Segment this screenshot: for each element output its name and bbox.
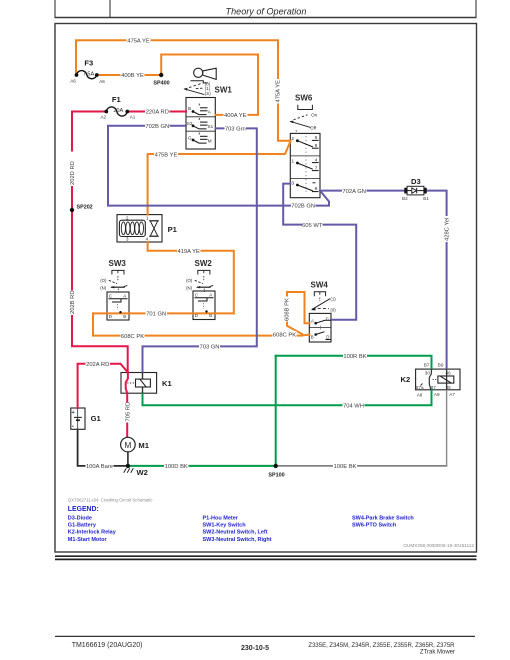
park brake switch SW4: [309, 281, 336, 340]
svg-text:SW4-Park Brake Switch: SW4-Park Brake Switch: [352, 515, 414, 521]
double rule under figure: [55, 555, 477, 557]
svg-text:(O): (O): [100, 278, 107, 283]
svg-text:D: D: [109, 314, 112, 319]
label 202B RD (vertical): [69, 290, 77, 315]
svg-text:D: D: [326, 335, 329, 340]
svg-text:419A YE: 419A YE: [177, 249, 200, 255]
label 202A RD: [86, 361, 111, 368]
svg-text:428C Yel: 428C Yel: [444, 218, 450, 241]
svg-text:W2: W2: [137, 468, 148, 477]
svg-text:SW6-PTO Switch: SW6-PTO Switch: [352, 523, 397, 529]
label 704 WH: [343, 402, 365, 409]
wire 202A RD: [78, 364, 128, 408]
svg-text:K2: K2: [401, 375, 411, 384]
svg-text:K1: K1: [162, 379, 172, 388]
svg-text:A9: A9: [434, 392, 440, 397]
svg-text:A7: A7: [449, 392, 455, 397]
svg-text:202A RD: 202A RD: [86, 362, 109, 368]
neutral switch SW3 body: [107, 292, 129, 320]
key switch SW1 body: [186, 98, 215, 150]
fuse F3: [70, 58, 105, 84]
label 703 GN: [199, 343, 220, 350]
svg-text:(N): (N): [186, 285, 193, 290]
label 475A YE (vertical): [274, 79, 281, 104]
svg-text:(S): (S): [205, 91, 211, 96]
svg-text:Theory of Operation: Theory of Operation: [226, 7, 307, 17]
neutral switch SW2 body: [193, 291, 215, 320]
wire 100R BK drop to SP100: [275, 356, 277, 466]
svg-text:D3-Diode: D3-Diode: [68, 515, 92, 521]
neutral switch SW2: [186, 259, 213, 318]
svg-text:G1-Battery: G1-Battery: [68, 523, 97, 529]
svg-text:1: 1: [292, 158, 295, 163]
wire 702A GN: [320, 190, 405, 192]
label 703 Grn: [225, 125, 247, 132]
svg-text:OUMX258,0000D05-19-20151112: OUMX258,0000D05-19-20151112: [403, 543, 474, 548]
svg-text:SW3: SW3: [109, 259, 127, 268]
svg-text:B: B: [123, 314, 126, 319]
label 419A YE: [177, 248, 201, 255]
PTO switch SW6 body: [290, 133, 320, 197]
figure border: [55, 24, 477, 553]
page footer: [55, 636, 475, 655]
svg-text:400B YE: 400B YE: [121, 73, 144, 79]
svg-text:D: D: [195, 313, 198, 318]
svg-text:B2: B2: [402, 196, 408, 201]
svg-text:2: 2: [292, 136, 295, 141]
svg-text:Z335E, Z345M, Z345R, Z355E, Z3: Z335E, Z345M, Z345R, Z355E, Z355R, Z365R…: [308, 643, 455, 649]
diode D3: [402, 177, 429, 201]
label 475A YE (top): [127, 37, 151, 44]
svg-text:(1): (1): [330, 296, 336, 301]
svg-text:G1: G1: [91, 414, 102, 423]
label 400B YE: [121, 72, 145, 79]
svg-text:87a: 87a: [416, 385, 424, 390]
svg-text:C: C: [195, 293, 198, 298]
start relay K1: [127, 373, 172, 394]
svg-text:608C PK: 608C PK: [273, 332, 296, 338]
svg-text:SW4: SW4: [311, 281, 329, 290]
label 428C Yel: [443, 216, 450, 242]
label 202D RD (vertical): [69, 152, 77, 187]
svg-text:87: 87: [431, 385, 437, 390]
svg-text:605 WT: 605 WT: [302, 223, 323, 229]
label 701 GN: [146, 310, 168, 317]
svg-text:100D BK: 100D BK: [165, 464, 188, 470]
wire 702B GN: [108, 126, 329, 206]
svg-text:M1-Start Motor: M1-Start Motor: [68, 537, 108, 543]
svg-text:A: A: [311, 318, 314, 323]
label 702A GN: [342, 188, 367, 195]
svg-text:7.5A: 7.5A: [83, 72, 95, 78]
wire 608C PK: [93, 313, 310, 335]
svg-text:702B GN: 702B GN: [145, 124, 169, 130]
svg-text:(O): (O): [186, 278, 193, 283]
label 100D BK: [164, 463, 189, 470]
label 475B YE: [154, 151, 178, 158]
svg-text:P1: P1: [168, 225, 178, 234]
wire K2 85 to 100E BK: [446, 390, 448, 466]
wire 475A YE: [76, 40, 291, 141]
svg-text:9: 9: [315, 186, 318, 191]
svg-text:S1: S1: [208, 124, 214, 129]
svg-text:-: -: [72, 423, 74, 430]
svg-text:702A GN: 702A GN: [342, 189, 366, 195]
svg-text:701 GN: 701 GN: [146, 312, 166, 318]
label 400A YE: [224, 112, 248, 119]
svg-text:220A RD: 220A RD: [146, 110, 169, 116]
svg-text:SW3-Neutral Switch, Right: SW3-Neutral Switch, Right: [203, 537, 272, 543]
svg-text:SW6: SW6: [295, 93, 313, 102]
svg-text:B1: B1: [423, 196, 429, 201]
svg-text:ZTrak Mower: ZTrak Mower: [420, 650, 455, 656]
svg-text:LEGEND:: LEGEND:: [68, 506, 99, 513]
wire 605 WT: [283, 184, 356, 320]
start relay K1 body: [121, 373, 157, 394]
wire 701 GN: [93, 312, 234, 314]
svg-text:P1-Hou Meter: P1-Hou Meter: [203, 515, 239, 521]
mechanical link dashes: [305, 136, 307, 193]
svg-text:SP400: SP400: [153, 81, 169, 87]
splice SP202: [70, 204, 93, 212]
wire 400B YE: [97, 74, 161, 76]
svg-text:100A Bare: 100A Bare: [86, 464, 113, 470]
position lever (0)(1)(S): [189, 83, 203, 88]
svg-text:202B RD: 202B RD: [70, 290, 76, 314]
svg-text:608B PK: 608B PK: [285, 298, 291, 321]
svg-text:F3: F3: [84, 58, 93, 67]
label 608C PK (right): [273, 331, 297, 338]
wire 400A YE: [161, 55, 258, 115]
svg-text:702B GN: 702B GN: [291, 203, 315, 209]
svg-text:C: C: [109, 294, 112, 299]
svg-text:SW2-Neutral Switch, Left: SW2-Neutral Switch, Left: [203, 530, 268, 536]
wire 475B YE: [148, 141, 291, 214]
svg-text:Off: Off: [310, 125, 317, 130]
svg-text:G: G: [188, 135, 192, 140]
svg-text:A6: A6: [70, 78, 76, 83]
svg-text:B: B: [188, 106, 191, 111]
svg-text:SW2: SW2: [195, 259, 213, 268]
internal dividers: [290, 155, 320, 157]
svg-text:100E BK: 100E BK: [334, 464, 357, 470]
key switch SW1: [184, 68, 233, 143]
wire 100E BK: [276, 465, 447, 467]
svg-text:705 RD: 705 RD: [125, 402, 131, 422]
svg-text:M: M: [124, 440, 131, 450]
svg-text:M: M: [208, 138, 212, 143]
page header: [55, 0, 477, 18]
wire 202 RD rail (202D/202B): [72, 112, 128, 373]
interlock relay K2: [401, 363, 456, 398]
key icon: [194, 68, 203, 77]
hour meter P1 body: [117, 215, 162, 242]
wire 428C Yel: [427, 191, 447, 370]
svg-text:B: B: [209, 313, 212, 318]
svg-text:B9: B9: [438, 363, 444, 368]
hour meter P1: [119, 216, 177, 242]
battery G1 body: [71, 408, 85, 429]
svg-text:8: 8: [315, 143, 318, 148]
wire 704 WH: [143, 390, 432, 406]
svg-text:A: A: [123, 294, 126, 299]
svg-text:F1: F1: [112, 95, 122, 104]
wire 100A Bare (battery ground): [78, 429, 128, 466]
svg-text:QXT062711-UN: Cranking Circuit: QXT062711-UN: Cranking Circuit Schematic: [68, 497, 154, 502]
svg-text:B: B: [311, 335, 314, 340]
svg-text:A1: A1: [130, 115, 136, 120]
wire 419A YE: [148, 242, 234, 313]
svg-text:A2: A2: [100, 115, 106, 120]
park brake switch SW4 body: [309, 313, 331, 342]
svg-text:SW1: SW1: [215, 85, 233, 94]
svg-text:TM166619 (20AUG20): TM166619 (20AUG20): [72, 642, 143, 649]
svg-text:608C PK: 608C PK: [121, 334, 144, 340]
svg-text:SW1-Key Switch: SW1-Key Switch: [203, 523, 247, 529]
label 100A Bare: [86, 463, 114, 470]
svg-text:30: 30: [425, 370, 431, 375]
svg-text:230-10-5: 230-10-5: [241, 645, 269, 652]
splice SP100: [268, 464, 284, 479]
PTO switch SW6: [289, 93, 320, 193]
svg-text:475A YE: 475A YE: [276, 80, 282, 103]
svg-text:475A YE: 475A YE: [127, 39, 150, 45]
svg-text:703 Grn: 703 Grn: [225, 127, 246, 133]
internal cell dividers: [186, 116, 215, 118]
fuse F1: [100, 95, 135, 120]
svg-text:202D RD: 202D RD: [70, 161, 76, 185]
svg-text:M1: M1: [138, 441, 149, 450]
wire M1 to ground W2: [127, 452, 129, 466]
splice SP400: [153, 73, 169, 87]
svg-text:4: 4: [315, 157, 318, 162]
interlock relay K2 body: [416, 369, 460, 390]
svg-text:SP202: SP202: [77, 204, 93, 210]
svg-text:400A YE: 400A YE: [224, 113, 247, 119]
label 608C PK (left): [121, 332, 145, 339]
svg-text:A8: A8: [417, 392, 423, 397]
start motor M1: [121, 437, 150, 452]
svg-text:704 WH: 704 WH: [343, 404, 364, 410]
svg-text:703 GN: 703 GN: [200, 345, 220, 351]
svg-text:20A: 20A: [113, 108, 123, 114]
svg-text:7: 7: [315, 165, 318, 170]
svg-text:K2-Interlock Relay: K2-Interlock Relay: [68, 530, 117, 536]
label 702B GN (right): [291, 202, 316, 209]
svg-text:B7: B7: [424, 363, 430, 368]
svg-text:·On: ·On: [310, 113, 318, 118]
svg-text:A6: A6: [99, 79, 105, 84]
svg-text:A: A: [209, 293, 212, 298]
label 705 RD (vertical): [124, 402, 131, 423]
battery G1: [72, 408, 102, 430]
wire 703 Grn / 703 GN: [143, 128, 257, 372]
svg-text:100R BK: 100R BK: [343, 354, 366, 360]
svg-text:(N): (N): [100, 285, 107, 290]
ground W2: [124, 464, 148, 477]
svg-text:(0): (0): [330, 307, 336, 312]
label 608B PK (vertical): [283, 297, 290, 322]
wire 100D BK ground bus: [128, 465, 276, 467]
label 702B GN (left): [145, 123, 170, 130]
svg-text:5: 5: [315, 135, 318, 140]
wire 705 RD: [126, 373, 128, 438]
label 100R BK: [343, 353, 367, 360]
label 100E BK: [333, 463, 357, 470]
svg-text:475B YE: 475B YE: [155, 152, 178, 158]
wire 608B PK: [287, 292, 310, 334]
wire 100R BK: [276, 356, 432, 369]
wire 220A RD: [128, 111, 186, 113]
svg-text:D3: D3: [411, 177, 421, 186]
neutral switch SW3: [100, 259, 127, 319]
label 605 WT: [302, 221, 323, 228]
svg-text:SP100: SP100: [268, 472, 284, 478]
svg-text:3: 3: [292, 180, 295, 185]
label 220A RD: [145, 108, 170, 115]
